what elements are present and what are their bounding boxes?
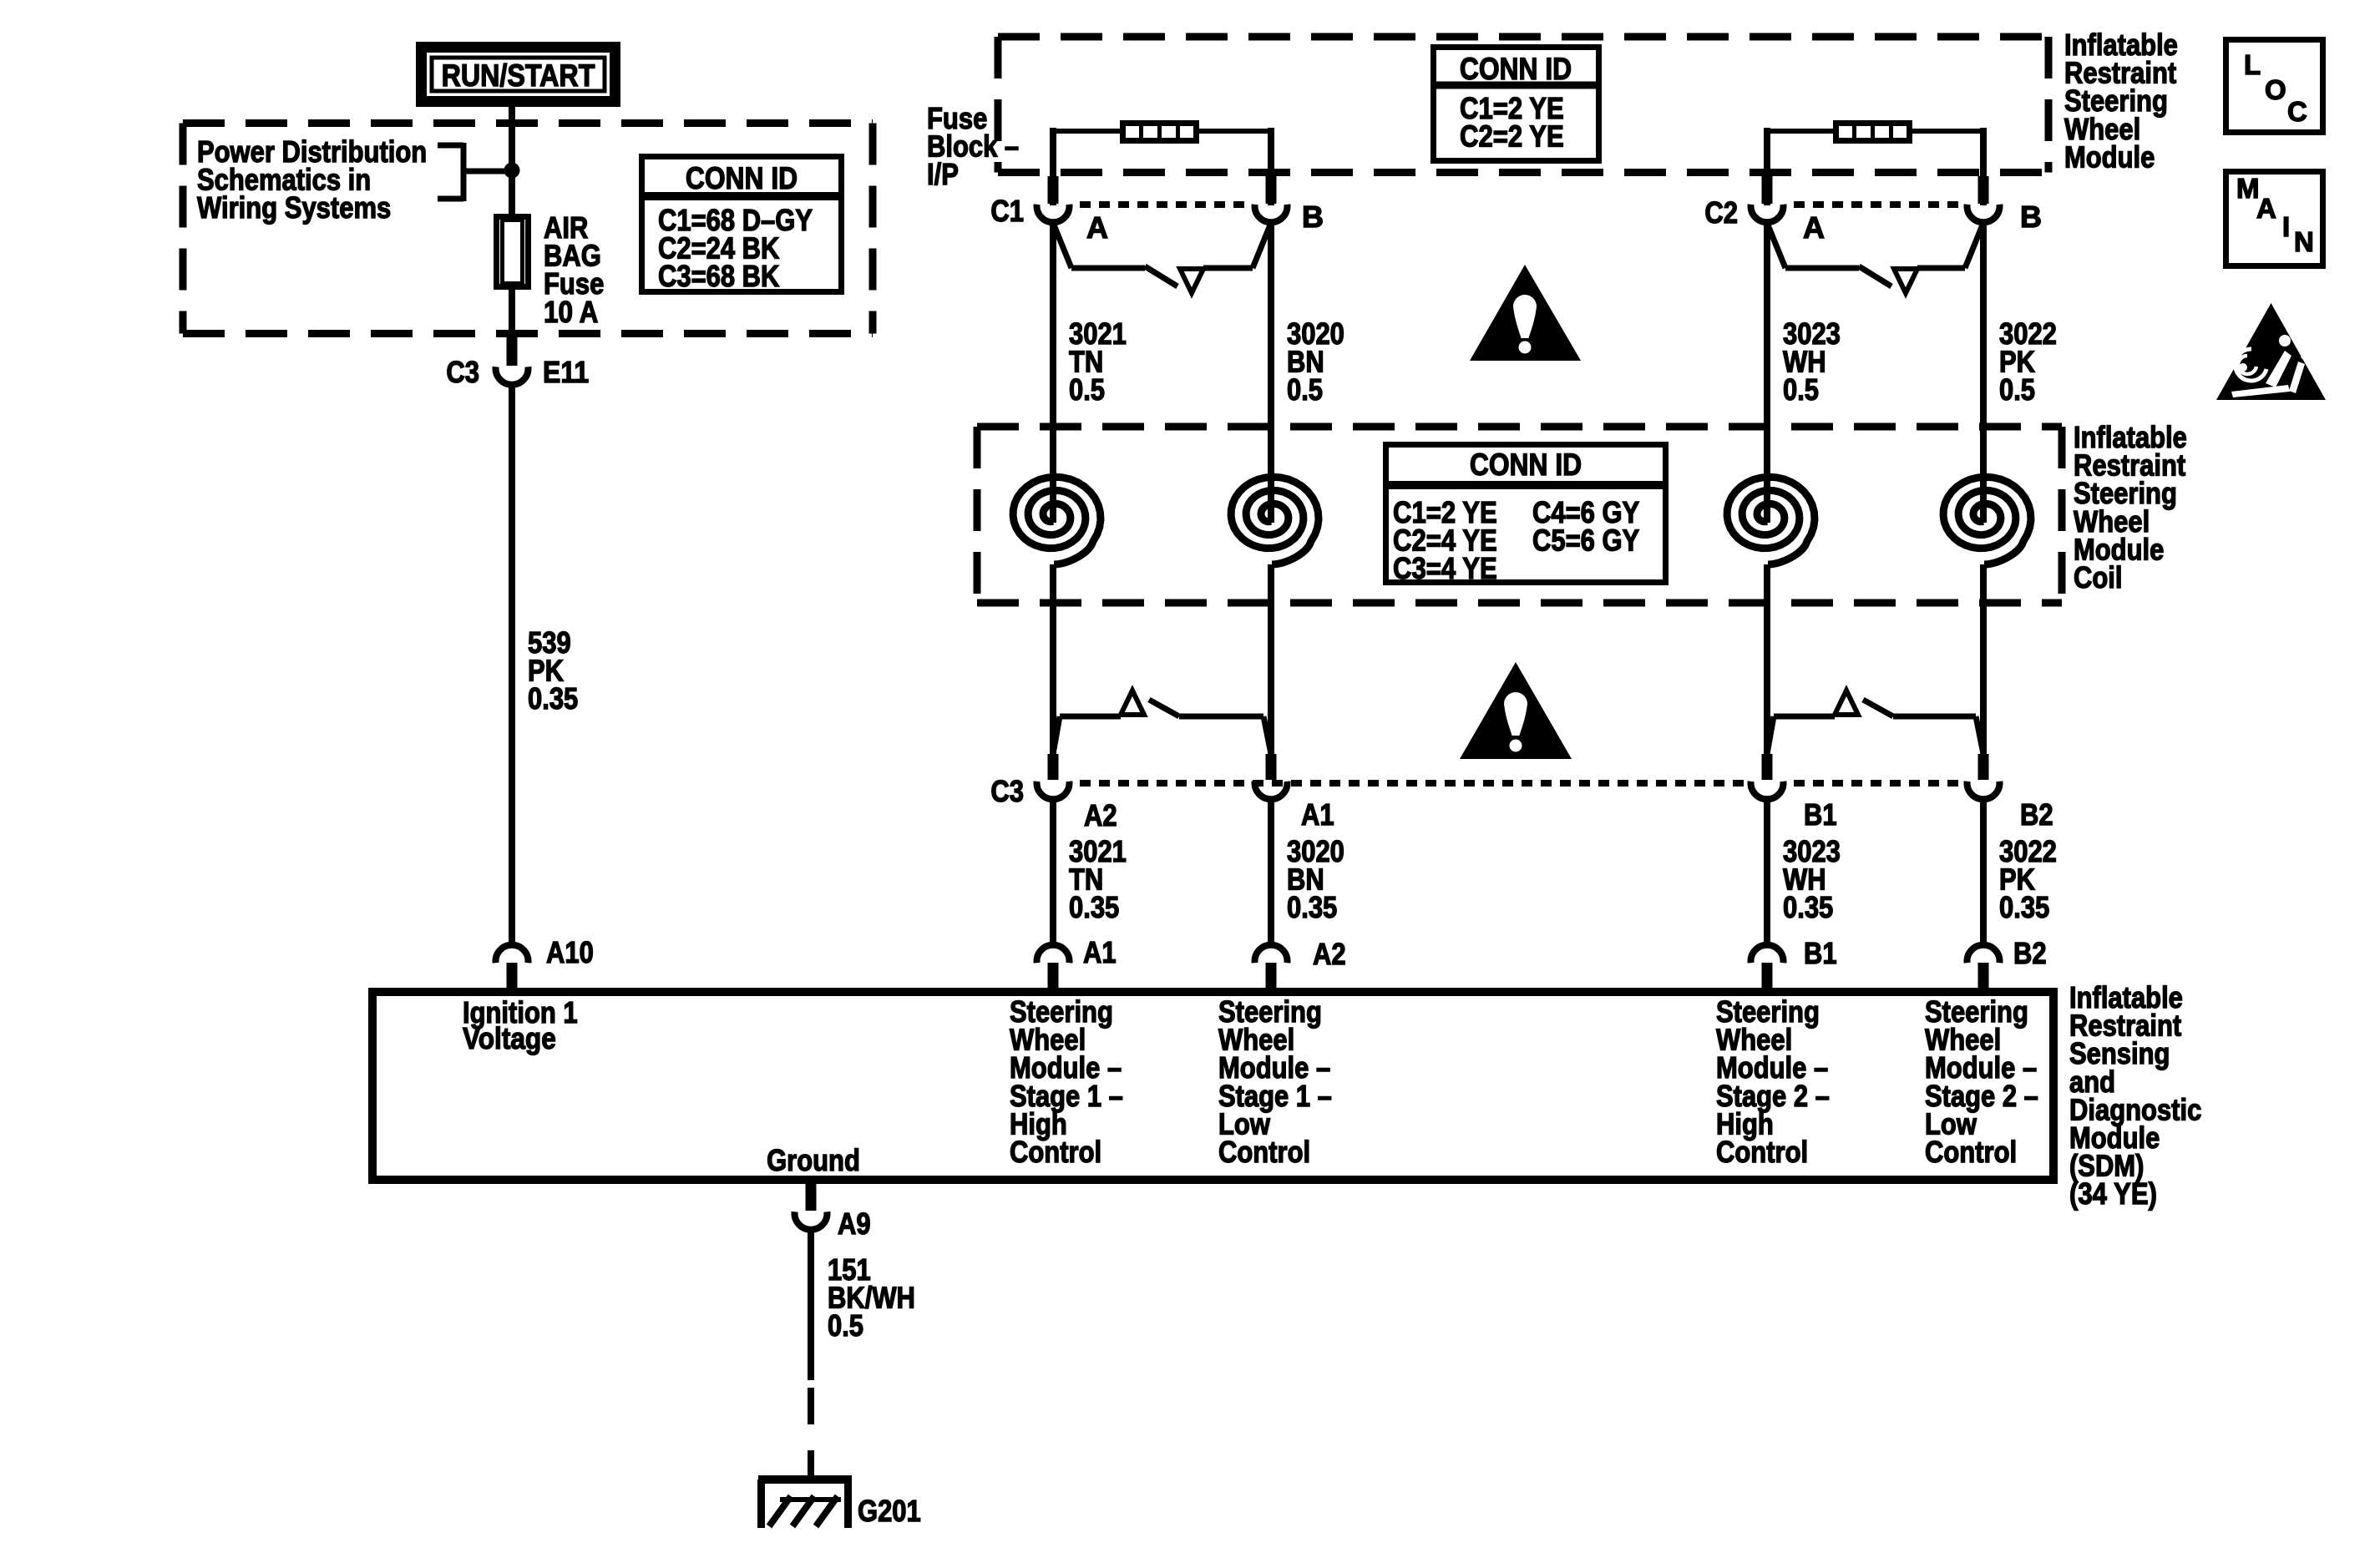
svg-text:0.35: 0.35	[1783, 890, 1833, 924]
svg-text:Control: Control	[1925, 1135, 2017, 1169]
svg-text:A1: A1	[1301, 797, 1334, 832]
svg-text:B2: B2	[2020, 797, 2053, 832]
svg-text:Coil: Coil	[2074, 560, 2123, 594]
svg-text:0.5: 0.5	[1783, 372, 1819, 407]
svg-text:G201: G201	[858, 1494, 921, 1528]
svg-text:A2: A2	[1084, 798, 1117, 832]
svg-text:A10: A10	[546, 935, 594, 969]
svg-text:0.35: 0.35	[1287, 890, 1337, 924]
svg-text:B2: B2	[2013, 936, 2047, 970]
svg-text:CONN ID: CONN ID	[686, 161, 798, 195]
svg-text:I: I	[2282, 211, 2290, 242]
svg-text:O: O	[2265, 74, 2286, 105]
svg-text:C2=2 YE: C2=2 YE	[1460, 119, 1564, 154]
svg-text:B: B	[2020, 200, 2042, 234]
svg-text:A: A	[1086, 210, 1108, 245]
svg-text:C3=4 YE: C3=4 YE	[1393, 551, 1497, 585]
svg-text:E11: E11	[543, 355, 589, 389]
svg-text:0.5: 0.5	[1287, 372, 1323, 407]
svg-text:Ground: Ground	[767, 1143, 860, 1177]
svg-text:L: L	[2244, 49, 2261, 80]
svg-text:C3=68 BK: C3=68 BK	[658, 259, 779, 293]
svg-text:I/P: I/P	[927, 157, 959, 191]
svg-text:CONN ID: CONN ID	[1460, 52, 1572, 86]
svg-text:Module: Module	[2064, 139, 2155, 174]
svg-text:0.5: 0.5	[1999, 372, 2035, 407]
svg-text:A1: A1	[1083, 935, 1117, 969]
svg-text:0.5: 0.5	[828, 1308, 863, 1343]
svg-text:B1: B1	[1804, 797, 1837, 832]
svg-text:0.35: 0.35	[1999, 890, 2049, 924]
svg-text:B1: B1	[1804, 936, 1837, 970]
svg-text:(34 YE): (34 YE)	[2069, 1176, 2157, 1211]
svg-text:0.5: 0.5	[1069, 372, 1105, 407]
svg-text:A: A	[2256, 193, 2276, 224]
svg-text:C1: C1	[990, 194, 1024, 228]
svg-text:Control: Control	[1010, 1135, 1101, 1169]
svg-text:C2: C2	[1704, 195, 1738, 230]
svg-text:RUN/START: RUN/START	[442, 58, 595, 93]
svg-text:0.35: 0.35	[1069, 890, 1119, 924]
svg-text:CONN ID: CONN ID	[1470, 448, 1582, 482]
svg-text:B: B	[1302, 200, 1324, 234]
svg-text:A9: A9	[838, 1206, 871, 1241]
svg-text:C: C	[2287, 96, 2307, 127]
svg-text:0.35: 0.35	[528, 681, 578, 716]
svg-text:C3: C3	[446, 355, 479, 389]
svg-text:Voltage: Voltage	[463, 1021, 556, 1055]
svg-text:A2: A2	[1313, 937, 1346, 971]
svg-text:N: N	[2294, 226, 2314, 257]
svg-text:Wiring Systems: Wiring Systems	[197, 190, 391, 225]
svg-text:Control: Control	[1716, 1135, 1808, 1169]
svg-text:A: A	[1803, 210, 1825, 245]
svg-text:C5=6 GY: C5=6 GY	[1532, 524, 1639, 558]
svg-text:Control: Control	[1218, 1135, 1310, 1169]
svg-text:C3: C3	[990, 774, 1024, 808]
svg-text:10 A: 10 A	[544, 295, 598, 329]
